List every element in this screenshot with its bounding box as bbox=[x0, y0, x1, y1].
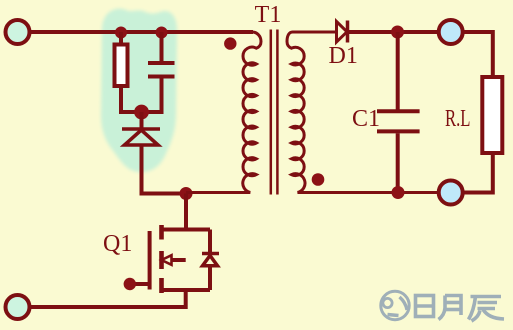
node dot: resistor top bbox=[115, 27, 127, 39]
resistor (snubber) bbox=[115, 32, 128, 86]
input terminal (bottom) bbox=[6, 295, 30, 319]
logo text yue bbox=[439, 296, 462, 320]
snubber highlight region bbox=[101, 9, 177, 172]
transistor Q1 bbox=[150, 225, 210, 293]
gate lead and dot bbox=[124, 278, 150, 290]
svg-text:T1: T1 bbox=[255, 2, 282, 28]
body diode bbox=[202, 230, 219, 291]
input terminal (top) bbox=[6, 20, 30, 44]
transformer T1 primary winding bbox=[186, 32, 261, 193]
wire: clamp diode to drain node bbox=[142, 145, 187, 194]
transformer T1 secondary winding bbox=[287, 32, 438, 193]
output terminal (bottom) bbox=[439, 181, 463, 205]
wire: top rail bbox=[30, 30, 253, 34]
clamp diode (snubber) bbox=[122, 112, 160, 145]
node dot: output bottom bbox=[392, 186, 405, 199]
polarity dot: primary bbox=[224, 37, 236, 49]
wire: output top to R.L bbox=[463, 32, 493, 77]
transformer T1 core bbox=[271, 30, 278, 195]
logo text chen bbox=[469, 297, 505, 322]
logo text ri bbox=[416, 296, 434, 317]
wire: D1 to output terminal bbox=[348, 30, 439, 34]
node dot: output top bbox=[391, 26, 404, 39]
capacitor C1 bbox=[377, 32, 420, 193]
output terminal (top) bbox=[439, 20, 463, 44]
svg-text:Q1: Q1 bbox=[103, 231, 132, 257]
resistor R.L bbox=[482, 77, 502, 153]
node dot: capacitor top bbox=[156, 27, 168, 39]
wire: snubber bottom join bbox=[121, 79, 162, 113]
wire: R.L bottom to output terminal bbox=[463, 153, 493, 193]
diode D1 bbox=[337, 21, 348, 43]
capacitor (snubber) bbox=[148, 32, 175, 77]
wire: drain bbox=[184, 194, 188, 230]
logo icon bbox=[381, 291, 409, 319]
wire: source to bottom rail bbox=[30, 290, 186, 307]
node dot: snubber junction bbox=[134, 105, 149, 120]
svg-text:D1: D1 bbox=[329, 43, 358, 69]
polarity dot: secondary bbox=[312, 173, 325, 186]
svg-text:C1: C1 bbox=[352, 106, 380, 132]
node dot: drain junction bbox=[180, 187, 193, 200]
svg-text:R.L: R.L bbox=[445, 106, 471, 132]
